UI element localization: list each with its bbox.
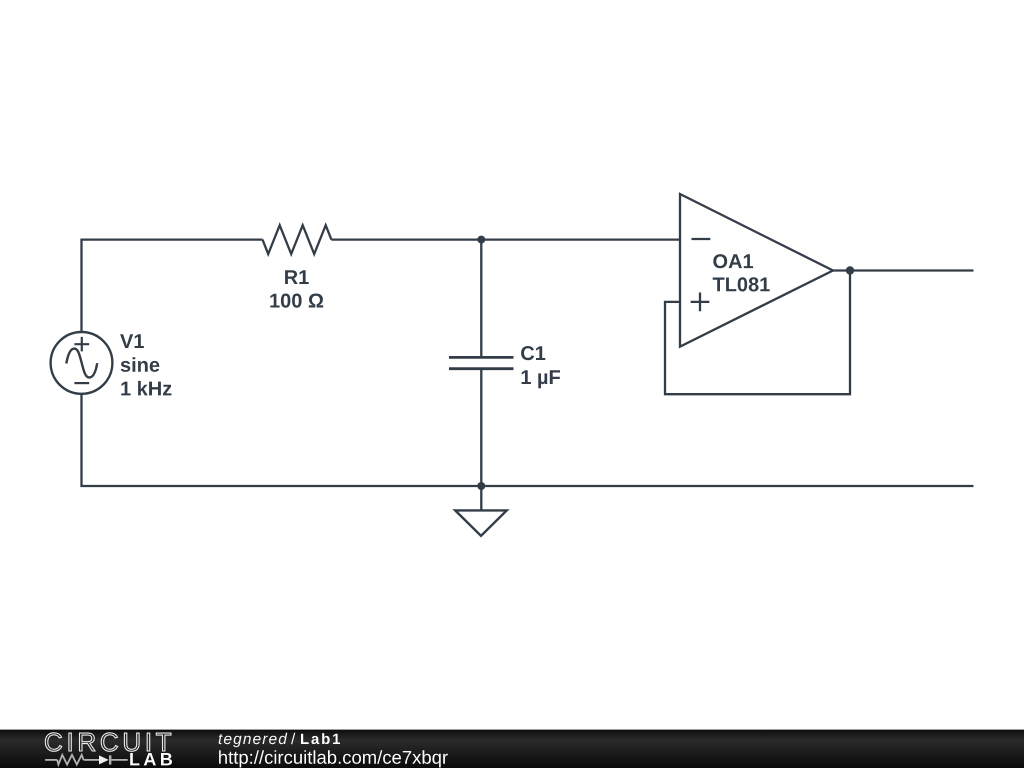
footer attribution: url [219,750,448,767]
wire: top node down to C1 top plate [480,240,482,358]
wire: feedback from OA1 non-inverting input to output node [665,271,850,395]
junction node: OA1 output / feedback [846,266,854,274]
V1 plus polarity mark [74,337,89,352]
ground stem [480,486,482,510]
wire: R1 right terminal to OA1 inverting input [331,238,680,240]
V1 sine waveform symbol [66,349,97,378]
voltage source V1 body [51,332,113,394]
label OA1 [713,254,753,268]
value TL081 [713,277,770,291]
label R1 [285,270,309,284]
junction node: R1/C1/OA1 input [477,236,485,244]
value sine [121,357,160,372]
logo diode arrow [99,755,109,764]
V1 minus polarity mark [74,382,89,384]
capacitor C1 top plate [449,356,514,359]
ground symbol [455,510,507,535]
wire: OA1 output to right edge [833,269,974,271]
CircuitLab logo wordmark CIRCUIT [45,733,171,752]
value 1 kHz [121,381,171,396]
wire: C1 bottom plate down to bottom rail [480,369,482,486]
footer attribution: tegnered [219,733,288,747]
resistor R1 [263,225,332,254]
OA1 non-inverting input marker [691,293,710,312]
logo resistor-diode squiggle [45,755,128,765]
footer attribution: Lab1 [301,733,340,744]
value 100 Ohm [270,294,323,308]
junction node: bottom rail / C1 / ground [477,482,485,490]
wire: bottom rail from V1 bottom terminal to right edge [82,394,974,487]
CircuitLab logo wordmark LAB [130,753,172,765]
OA1 inverting input marker [692,238,711,240]
op-amp OA1 triangle body [680,194,833,347]
label V1 [120,334,144,348]
footer attribution: slash [291,733,295,744]
capacitor C1 bottom plate [449,367,514,370]
wire: V1 top terminal up and right to R1 left terminal [82,240,263,333]
footer bar [0,730,1024,768]
label C1 [521,346,545,360]
value 1 uF [522,370,560,388]
